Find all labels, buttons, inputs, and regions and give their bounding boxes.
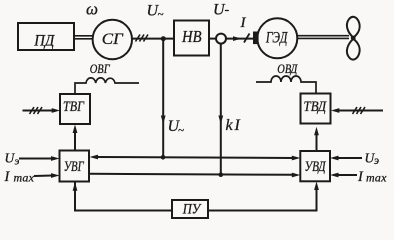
svg-text:УВГ: УВГ (64, 159, 85, 175)
svg-text:~: ~ (178, 125, 184, 137)
svg-text:ОВД: ОВД (277, 61, 298, 76)
svg-text:I: I (240, 15, 247, 31)
svg-text:э: э (15, 156, 20, 168)
svg-text:I: I (4, 169, 11, 185)
svg-text:УВД: УВД (305, 159, 327, 175)
svg-text:max: max (366, 171, 387, 185)
svg-text:ПД: ПД (33, 32, 55, 49)
svg-text:~: ~ (158, 9, 164, 21)
svg-text:ТВГ: ТВГ (63, 99, 85, 115)
svg-text:НВ: НВ (181, 27, 202, 46)
svg-text:-: - (225, 3, 230, 18)
svg-text:ω: ω (86, 0, 98, 19)
svg-text:ОВГ: ОВГ (90, 61, 110, 76)
svg-text:ПУ: ПУ (182, 201, 202, 217)
svg-text:I: I (357, 169, 364, 185)
svg-text:I: I (234, 117, 241, 134)
svg-text:k: k (226, 117, 234, 134)
svg-text:ГЭД: ГЭД (265, 29, 288, 46)
svg-text:ТВД: ТВД (304, 99, 328, 115)
svg-text:СГ: СГ (102, 31, 124, 48)
svg-text:э: э (374, 155, 379, 167)
svg-text:max: max (14, 171, 35, 185)
